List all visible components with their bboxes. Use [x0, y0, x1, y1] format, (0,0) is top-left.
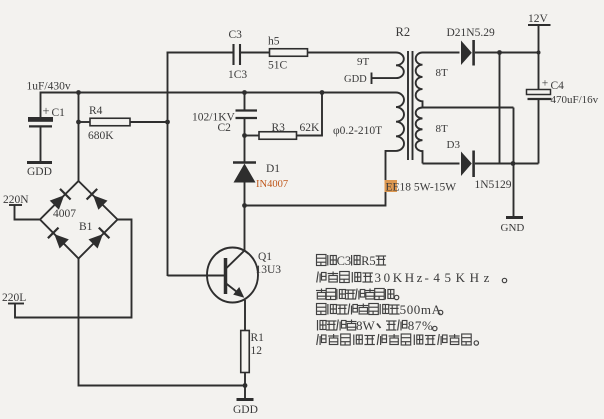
svg-text:12: 12 [251, 345, 263, 357]
wire: bridge bottom vertex to bottom rail [79, 259, 246, 386]
svg-text:51C: 51C [268, 60, 288, 72]
wire: collector riser [244, 206, 246, 252]
node junction D2 out [497, 50, 502, 55]
wire: diode output rail vertical [499, 53, 501, 164]
svg-text:h5: h5 [268, 36, 280, 48]
resistor R3 [259, 132, 297, 140]
wire: center tap gnd riser [513, 108, 515, 218]
wire: R3 left lead [245, 135, 260, 137]
svg-text:8T: 8T [436, 123, 449, 135]
svg-text:C4: C4 [551, 80, 565, 92]
svg-text:IN4007: IN4007 [256, 179, 288, 190]
svg-text:12V: 12V [528, 13, 549, 25]
svg-text:GDD: GDD [344, 74, 367, 85]
wire: C3 to R5 [241, 52, 270, 54]
wire: base riser vertical [167, 52, 169, 277]
svg-text:R5: R5 [361, 254, 376, 268]
diode D1 cathode-up [233, 163, 256, 183]
220N terminal tick [9, 204, 22, 206]
node junction R3 riser top [320, 90, 325, 95]
wire: R4 left lead [79, 121, 91, 123]
bridge rectifier B1 diamond [40, 181, 118, 259]
wire: R5 to primary 9T [308, 52, 397, 54]
wire: main top rail [40, 92, 322, 94]
svg-text:1uF/430v: 1uF/430v [27, 81, 71, 93]
capacitor C1 electrolytic [28, 117, 53, 161]
node junction bottom rail R1 [243, 383, 248, 388]
ground GND bar right [506, 216, 523, 219]
wire: 220N to bridge left vertex [15, 205, 41, 220]
node junction D1 collector primary-return [242, 203, 247, 208]
wire: top C3 wire [167, 52, 234, 54]
wire: bridge riser [78, 93, 80, 183]
wire: R4 right lead [130, 121, 168, 123]
svg-text:500mA: 500mA [400, 302, 442, 317]
svg-text:+: + [42, 104, 49, 118]
svg-text:1C3: 1C3 [228, 69, 247, 81]
svg-text:EE18 5W-15W: EE18 5W-15W [386, 182, 457, 194]
transformer primary 9T winding [396, 53, 404, 79]
svg-text:φ0.2-210T: φ0.2-210T [333, 125, 382, 137]
220L terminal tick [8, 303, 24, 305]
svg-text:B1: B1 [79, 221, 93, 233]
node junction R4 right and base riser [165, 120, 170, 125]
resistor R4 [90, 118, 130, 126]
capacitor C3 [234, 44, 241, 65]
svg-text:8W: 8W [356, 318, 376, 333]
svg-text:1N5129: 1N5129 [475, 179, 512, 191]
svg-text:30KHz: 30KHz [375, 270, 426, 285]
node junction center tap crossing [511, 161, 516, 166]
svg-text:C2: C2 [218, 122, 232, 134]
transformer secondary bottom 8T winding [416, 108, 423, 164]
resistor R1 vertical [241, 331, 250, 373]
wire: C2 branch down [244, 93, 246, 111]
svg-text:R2: R2 [396, 25, 411, 39]
bridge diode bottom-right [89, 228, 110, 249]
svg-text:D21N5.29: D21N5.29 [447, 27, 495, 39]
wire: C2 to R3 node to D1 [244, 118, 246, 162]
transformer primary 210T winding [396, 93, 404, 151]
wire: secondary bottom to D3 [423, 163, 460, 165]
svg-text:470uF/16v: 470uF/16v [551, 94, 599, 106]
svg-text:D1: D1 [266, 163, 280, 175]
diode D2 [461, 40, 474, 66]
svg-text:D3: D3 [447, 139, 461, 151]
bridge diode bottom-left [48, 228, 69, 249]
wire: 12V rail to C4 [538, 25, 540, 90]
svg-text:+: + [542, 78, 549, 90]
12V terminal tick [528, 24, 551, 26]
wire: main rail to primary 210T [322, 92, 396, 94]
svg-text:680K: 680K [88, 130, 114, 142]
node junction 12V rail [537, 51, 541, 55]
wire: base lead [168, 275, 226, 277]
svg-text:GDD: GDD [27, 166, 52, 178]
svg-text:Q1: Q1 [258, 251, 272, 263]
svg-text:GDD: GDD [233, 404, 258, 416]
diode D3 [461, 151, 474, 178]
wire: D2 cathode to 12V rail [475, 52, 539, 54]
wire: 9T bottom tap [372, 77, 397, 79]
wire: R1 bottom to ground node [244, 373, 246, 400]
wire: D1 anode to collector node [244, 182, 246, 206]
svg-text:13U3: 13U3 [256, 264, 282, 276]
bridge diode top-left [50, 189, 71, 210]
svg-text:9T: 9T [357, 56, 370, 68]
wire: primary bottom exit to collector rail [245, 151, 397, 206]
svg-text:R1: R1 [251, 332, 265, 344]
ground GDD bottom [237, 398, 254, 401]
node junction main rail and bridge riser [76, 90, 81, 95]
node junction C2 R3 D1 [242, 133, 247, 138]
wire: D3 cathode to C4 bottom lead [475, 163, 539, 165]
wire: secondary top to D2 [423, 52, 460, 54]
svg-text:GND: GND [501, 222, 525, 234]
svg-text:R3: R3 [272, 122, 286, 134]
capacitor C4 electrolytic [527, 90, 552, 164]
svg-text:220L: 220L [2, 292, 26, 304]
label EE18 5W-15W with orange highlight [385, 180, 398, 192]
GDD tap tick [371, 73, 373, 85]
bridge diode top-right [87, 189, 108, 210]
wire: 220L to bridge right vertex [15, 220, 132, 318]
transformer core [408, 51, 413, 160]
wire: center tap horizontal [423, 107, 514, 109]
svg-text:8T: 8T [436, 67, 449, 79]
svg-text:C3: C3 [337, 254, 352, 268]
transistor Q1 [207, 248, 258, 303]
svg-text:62K: 62K [300, 122, 321, 134]
node junction C2 top [242, 90, 247, 95]
svg-text:R4: R4 [89, 105, 103, 117]
svg-text:C3: C3 [229, 29, 243, 41]
ground GDD under C1 [27, 161, 52, 164]
transformer secondary top 8T winding [416, 52, 423, 107]
annotation text block Chinese notes [316, 254, 507, 345]
node junction R4 left [76, 120, 81, 125]
svg-text:C1: C1 [52, 107, 66, 119]
svg-text:87%: 87% [408, 318, 434, 333]
wire: C1 branch vertical [40, 92, 42, 119]
svg-text:4007: 4007 [53, 208, 76, 220]
wire: emitter to R1 [244, 300, 246, 331]
resistor R5 [270, 49, 308, 57]
wire: R3 right lead and riser [297, 93, 323, 136]
capacitor C2 [236, 111, 258, 119]
svg-text:-45KHz: -45KHz [425, 270, 494, 285]
